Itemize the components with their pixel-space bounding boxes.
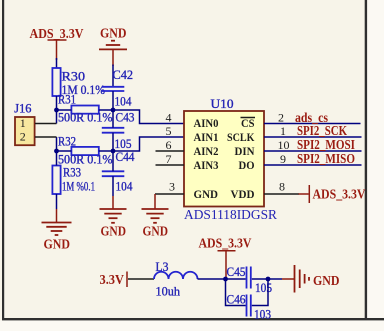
svg-text:104: 104 xyxy=(115,94,132,109)
svg-text:10: 10 xyxy=(278,138,290,152)
svg-text:GND: GND xyxy=(313,274,340,289)
svg-text:5: 5 xyxy=(166,124,172,138)
wire node B to R32 xyxy=(57,150,72,152)
wire node A down to J16 pin1 row xyxy=(56,110,58,124)
svg-text:VDD: VDD xyxy=(231,189,255,201)
svg-text:AIN3: AIN3 xyxy=(194,160,219,172)
svg-text:AIN0: AIN0 xyxy=(194,118,219,130)
wire C46 to node F xyxy=(252,279,268,306)
wire C45 to node F xyxy=(252,278,268,280)
svg-text:GND: GND xyxy=(143,225,169,240)
svg-text:ADS1118IDGSR: ADS1118IDGSR xyxy=(184,207,277,222)
wire GND to C42 xyxy=(112,65,114,87)
ground under C44 xyxy=(100,209,127,240)
inductor L3 xyxy=(154,259,198,279)
wire node E to C45 xyxy=(226,278,246,280)
svg-text:GND: GND xyxy=(100,26,127,41)
svg-text:R33: R33 xyxy=(63,165,81,180)
svg-text:103: 103 xyxy=(254,307,271,322)
wire J16 pin 1 xyxy=(35,123,57,125)
svg-text:DO: DO xyxy=(239,160,255,172)
ground under R33 xyxy=(42,223,72,253)
svg-text:R31: R31 xyxy=(58,92,76,107)
capacitor C44 xyxy=(102,149,135,176)
wire pin 2 net ads_cs xyxy=(264,123,361,125)
svg-text:C44: C44 xyxy=(116,149,135,164)
svg-text:8: 8 xyxy=(279,180,285,194)
wire power to node E xyxy=(225,266,227,279)
svg-text:1M %0.1: 1M %0.1 xyxy=(62,179,95,194)
svg-text:ADS_3.3V: ADS_3.3V xyxy=(199,237,252,252)
resistor R30 xyxy=(52,68,85,96)
wire pin 10 net SPI2_MOSI xyxy=(264,150,362,152)
svg-text:4: 4 xyxy=(166,111,172,125)
wire power to R30 xyxy=(56,58,58,68)
node E junction xyxy=(223,277,228,282)
svg-text:GND: GND xyxy=(194,189,219,201)
pin 3 wire xyxy=(155,193,184,195)
IC U10 xyxy=(184,96,264,207)
svg-text:500R 0.1%: 500R 0.1% xyxy=(58,110,113,125)
power port GND top xyxy=(99,26,127,66)
wire node D to C44 xyxy=(112,151,114,171)
wire R33 to ground xyxy=(56,194,58,209)
resistor R33 xyxy=(52,165,81,195)
wire pin 8 to power xyxy=(264,193,299,195)
wire R32 to node D xyxy=(99,150,113,152)
svg-text:2: 2 xyxy=(20,130,26,144)
wire R30 to node A xyxy=(56,96,58,110)
svg-text:ADS_3.3V: ADS_3.3V xyxy=(313,188,366,203)
resistor R31 xyxy=(58,92,99,114)
power port 3.3V bottom xyxy=(100,272,128,289)
pin 7 stub xyxy=(156,164,185,166)
svg-text:C46: C46 xyxy=(227,292,246,307)
wire pin 1 net SPI2_SCK xyxy=(264,136,362,138)
ground bottom-right xyxy=(295,265,340,293)
wire node E down to C46 xyxy=(226,279,246,306)
wire node A to R31 xyxy=(57,109,72,111)
capacitor C46 xyxy=(227,292,251,317)
svg-text:C42: C42 xyxy=(113,67,134,82)
node F junction xyxy=(266,277,271,282)
resistor R32 xyxy=(58,134,99,156)
svg-text:105: 105 xyxy=(255,280,272,295)
ground at pin 3 xyxy=(142,209,169,240)
svg-text:7: 7 xyxy=(166,152,172,166)
wire L3 to node E xyxy=(198,278,226,280)
svg-text:U10: U10 xyxy=(211,96,234,111)
svg-text:GND: GND xyxy=(101,225,127,240)
svg-text:AIN2: AIN2 xyxy=(194,146,219,158)
wire node D to U10 pin 5 xyxy=(113,137,184,151)
pin 6 stub xyxy=(156,150,185,152)
svg-text:SPI2_MOSI: SPI2_MOSI xyxy=(297,138,355,153)
wire node C to U10 pin 4 xyxy=(113,110,184,124)
node D junction xyxy=(111,149,116,154)
svg-text:SPI2_MISO: SPI2_MISO xyxy=(297,152,355,167)
svg-text:2: 2 xyxy=(278,111,284,125)
power port ADS_3.3V bottom xyxy=(199,237,252,267)
svg-text:C43: C43 xyxy=(116,110,135,125)
svg-text:6: 6 xyxy=(166,138,172,152)
power port ADS_3.3V right xyxy=(309,185,365,203)
node C junction xyxy=(111,108,116,113)
svg-text:SPI2_SCK: SPI2_SCK xyxy=(297,124,347,139)
svg-text:AIN1: AIN1 xyxy=(194,132,219,144)
svg-text:10uh: 10uh xyxy=(156,284,181,299)
svg-text:104: 104 xyxy=(116,179,133,194)
power port ADS_3.3V top-left xyxy=(30,27,84,60)
svg-text:DIN: DIN xyxy=(235,146,256,158)
connector J16 xyxy=(14,100,34,145)
wire pin 9 net SPI2_MISO xyxy=(264,164,362,166)
wire 3.3V to L3 xyxy=(128,278,154,280)
svg-text:GND: GND xyxy=(44,237,71,252)
wire R31 to node C xyxy=(99,109,113,111)
capacitor C45 xyxy=(227,264,251,289)
wire node C to C43 xyxy=(112,110,114,128)
wire C42 to node C xyxy=(112,91,114,110)
wire J16 pin 2 xyxy=(35,136,57,138)
capacitor C42 xyxy=(102,67,133,91)
svg-text:9: 9 xyxy=(280,152,286,166)
svg-text:C45: C45 xyxy=(227,264,246,279)
svg-text:3.3V: 3.3V xyxy=(100,273,125,288)
svg-text:1: 1 xyxy=(20,116,26,130)
wire node B up from J16 pin2 row xyxy=(56,137,58,151)
node A junction xyxy=(54,108,59,113)
wire C44 to ground xyxy=(112,176,114,196)
svg-text:1: 1 xyxy=(280,124,286,138)
svg-text:SCLK: SCLK xyxy=(227,132,255,144)
capacitor C43 xyxy=(102,110,135,133)
wire C43 to node D xyxy=(112,133,114,151)
svg-text:CS: CS xyxy=(241,118,255,130)
svg-text:J16: J16 xyxy=(14,100,32,115)
wire node B to R33 xyxy=(56,151,58,166)
wire node F to ground xyxy=(268,278,282,280)
svg-text:3: 3 xyxy=(169,180,175,194)
node B junction xyxy=(54,149,59,154)
